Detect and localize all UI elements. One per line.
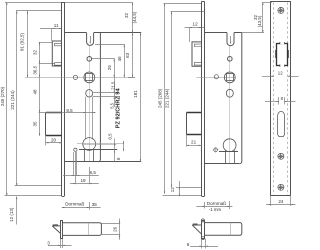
svg-text:245 (268): 245 (268) — [158, 88, 163, 108]
svg-text:12: 12 — [278, 71, 283, 76]
svg-text:6: 6 — [187, 242, 190, 247]
svg-text:(43,5): (43,5) — [257, 15, 262, 27]
svg-text:35: 35 — [92, 202, 98, 207]
svg-text:181: 181 — [133, 90, 138, 98]
svg-text:Dornmaß: Dornmaß — [65, 202, 84, 207]
svg-text:12 (13): 12 (13) — [9, 207, 14, 222]
svg-text:32: 32 — [32, 50, 37, 56]
svg-text:8,5: 8,5 — [66, 108, 73, 113]
svg-text:3: 3 — [47, 240, 50, 245]
svg-text:26: 26 — [112, 226, 117, 232]
svg-text:19: 19 — [80, 178, 86, 183]
svg-text:PZ 92/CHRZ 94: PZ 92/CHRZ 94 — [116, 88, 122, 129]
svg-text:6,5: 6,5 — [90, 170, 97, 175]
svg-text:12: 12 — [193, 21, 199, 26]
svg-text:21: 21 — [191, 139, 197, 144]
svg-text:11: 11 — [54, 23, 59, 28]
svg-text:221 (244): 221 (244) — [10, 90, 15, 110]
svg-text:20: 20 — [51, 138, 57, 143]
svg-text:(44,5): (44,5) — [132, 11, 137, 23]
svg-text:Dornmaß: Dornmaß — [207, 201, 226, 206]
svg-text:5,5: 5,5 — [110, 102, 115, 108]
svg-text:35: 35 — [32, 121, 37, 127]
svg-text:0,5: 0,5 — [107, 133, 112, 140]
svg-text:25: 25 — [107, 65, 112, 71]
svg-text:-1 mm: -1 mm — [209, 207, 222, 212]
svg-text:81 (92,5): 81 (92,5) — [20, 32, 25, 51]
svg-text:12: 12 — [170, 187, 175, 193]
svg-text:36,5: 36,5 — [32, 65, 37, 74]
svg-text:221 (244): 221 (244) — [165, 88, 170, 108]
svg-text:46: 46 — [117, 56, 122, 62]
svg-text:245 (270): 245 (270) — [0, 86, 5, 106]
svg-text:24: 24 — [278, 199, 284, 204]
svg-text:21,5: 21,5 — [111, 81, 116, 90]
svg-text:48: 48 — [32, 89, 37, 95]
svg-text:63: 63 — [125, 52, 130, 58]
svg-text:32: 32 — [124, 13, 129, 19]
